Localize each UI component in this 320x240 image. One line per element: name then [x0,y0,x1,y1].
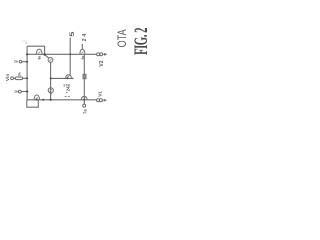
svg-text:8: 8 [24,41,29,44]
svg-text:OTA: OTA [117,29,129,47]
svg-text:7a: 7a [83,109,88,114]
svg-text:5: 5 [69,31,76,37]
svg-text:FIG. 2: FIG. 2 [131,27,152,55]
svg-text:3a: 3a [18,71,22,76]
svg-text:Vin: Vin [5,74,11,81]
svg-text:V1: V1 [97,91,102,97]
svg-text:9a: 9a [81,56,85,60]
svg-text:24: 24 [66,86,71,91]
svg-text:24: 24 [82,32,88,41]
svg-text:2a: 2a [14,59,18,63]
svg-text:1a: 1a [14,89,18,93]
svg-text:V2: V2 [99,60,105,66]
svg-text:8a: 8a [37,56,41,60]
